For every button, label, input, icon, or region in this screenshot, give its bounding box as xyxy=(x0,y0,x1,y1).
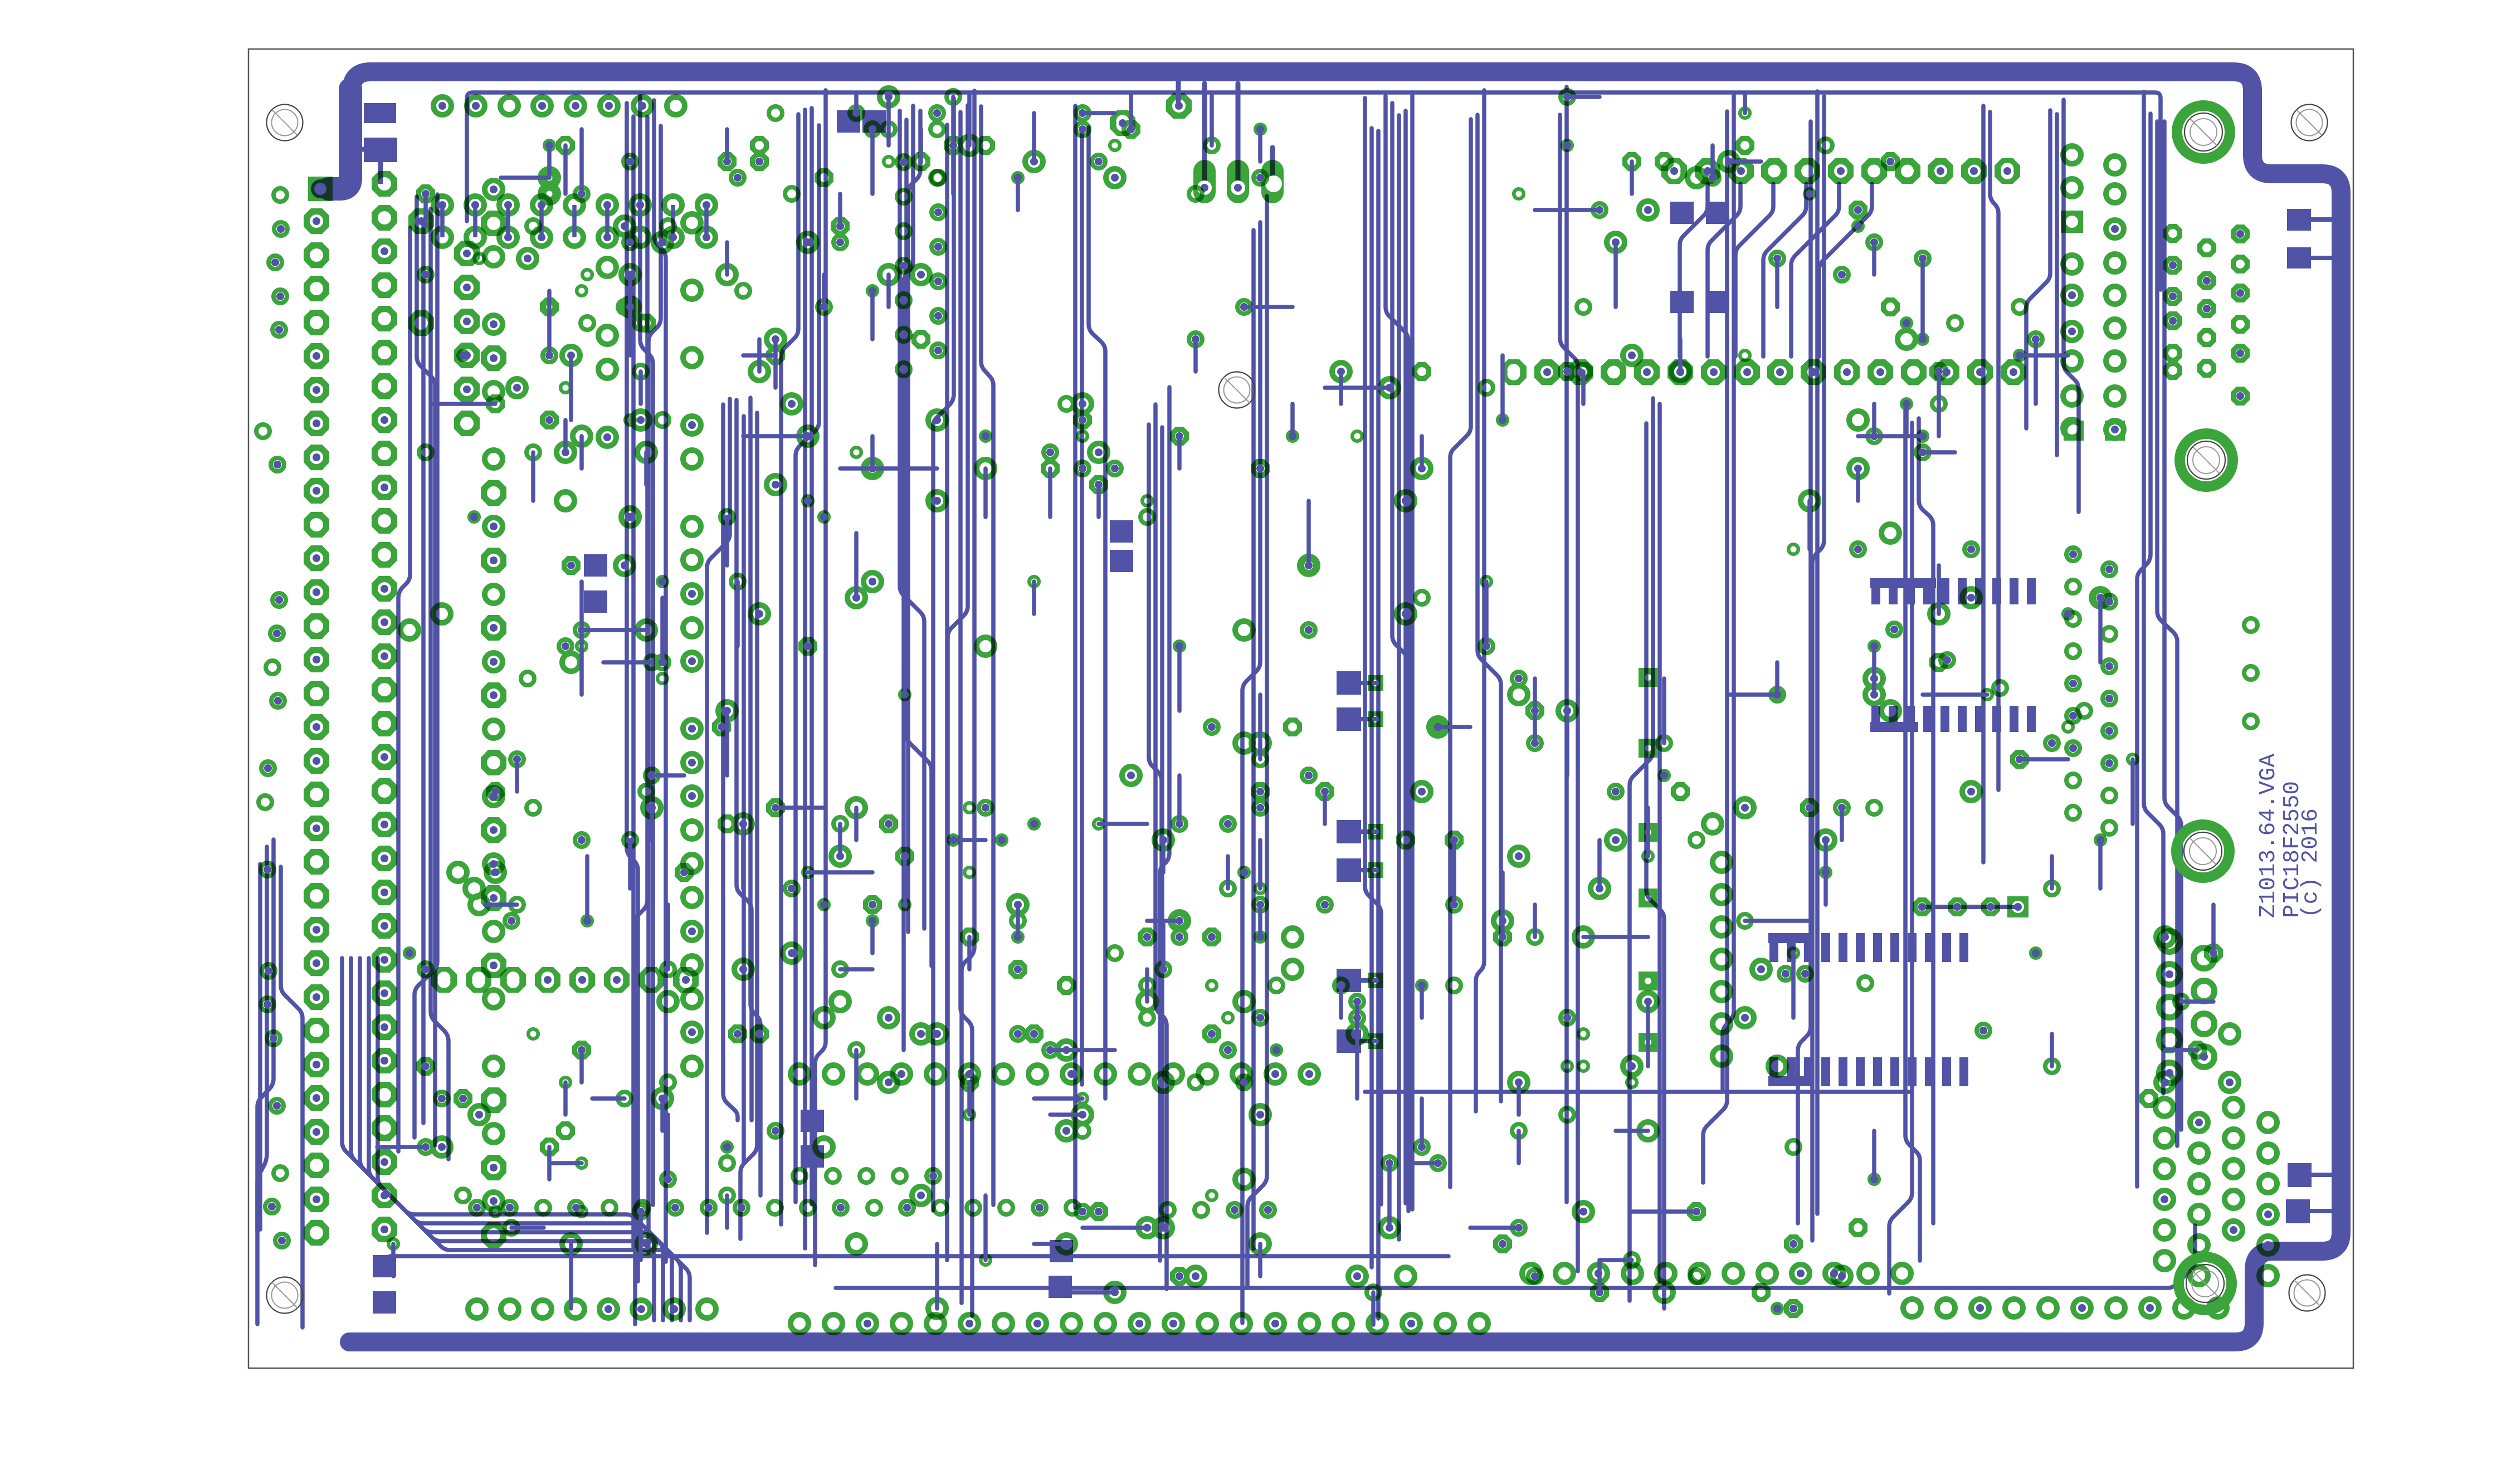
programming pads (ovals) xyxy=(1193,160,1284,203)
wire bottom bus 2 xyxy=(836,1226,2195,1288)
resistor pack pad rows top-left xyxy=(433,196,715,246)
SMD pads C bypass at right edge top xyxy=(2287,209,2311,231)
wire bundle K xyxy=(1450,119,1471,1187)
pads near IC U31 xyxy=(1779,623,2029,1037)
wire bundle R xyxy=(2026,110,2050,428)
via column x886 xyxy=(481,180,506,1248)
wire bundle Q xyxy=(1981,106,1986,862)
wire bundle F xyxy=(945,125,949,1260)
connector J1 column 1 pads xyxy=(304,177,333,1246)
wire bundle B xyxy=(627,103,638,1281)
wire bundle J xyxy=(1365,98,1381,1204)
wire bundle G xyxy=(1073,106,1077,1208)
pad row mid-left xyxy=(431,967,699,993)
pad row bottom C1 xyxy=(791,1315,1488,1332)
mounting hole top-right xyxy=(2291,105,2328,141)
connector X4 pads (staggered) xyxy=(2159,931,2215,1083)
pad row bottom R1 xyxy=(1903,1299,2227,1317)
via column x1684 xyxy=(932,171,945,357)
wire bundle L xyxy=(1560,115,1578,1271)
wires to programming pads xyxy=(1178,81,1272,188)
wire bundle C xyxy=(723,404,738,1120)
jumper pads center-right xyxy=(1368,668,1730,1065)
pad row y1928 xyxy=(791,1065,1318,1083)
wire bundle I xyxy=(1251,230,1256,1249)
wire bundle E xyxy=(900,111,924,929)
wire bundle M xyxy=(1646,423,1664,1309)
mounting hole center xyxy=(1219,372,1255,408)
wire bundle connector risers xyxy=(398,228,410,1151)
plated mounting hole right 1 xyxy=(2177,106,2230,159)
IC U10 pad row top xyxy=(1661,158,2020,184)
scattered via fields xyxy=(388,88,2239,1318)
pad row bottom R2 xyxy=(1522,1265,1911,1282)
wire diagonal staircase bottom-left xyxy=(342,958,654,1320)
wire bundle left A xyxy=(258,864,262,1229)
plated mounting hole right 3 xyxy=(2177,825,2230,878)
mounting hole bottom-left xyxy=(267,1277,303,1314)
wire bundle D xyxy=(781,114,798,1224)
page frame xyxy=(248,49,2353,1368)
via columns right of IC U30 xyxy=(2066,548,2257,834)
via column x838 xyxy=(454,241,480,436)
pad row bottom C3 xyxy=(793,1169,940,1183)
wire bottom bus 1 xyxy=(390,1254,1449,1258)
connector X5 pad grid bottom-right xyxy=(2156,1099,2277,1285)
wire bundle S xyxy=(2144,92,2163,1094)
wire bundle O xyxy=(1798,121,1811,1223)
pad row bottom C2 xyxy=(1161,1203,1275,1217)
pad row bottom L2 xyxy=(470,1201,1079,1214)
ground trace wide segment top-left xyxy=(329,89,350,189)
wire diagonal fan top-right xyxy=(1680,184,1708,357)
plated mounting hole right 4 xyxy=(2179,1257,2232,1310)
SMD jumper column center-right xyxy=(1337,671,1361,695)
connector K2 pad field top-right xyxy=(2061,146,2250,441)
IC U30 SMD pads (SO-20) xyxy=(1871,578,1880,604)
connector J1 column 2 pads xyxy=(372,171,397,1242)
pad row bottom L1 xyxy=(468,1300,716,1318)
wire jumper row near IC U31 xyxy=(1922,905,2017,909)
via column x1242 xyxy=(683,214,701,1075)
wire bundle H xyxy=(1149,424,1162,1224)
left edge via column xyxy=(256,188,289,1247)
via column x1090 xyxy=(598,258,616,446)
wire bundle P xyxy=(1905,411,1920,1261)
svg-text:(c) 2016: (c) 2016 xyxy=(2298,808,2324,918)
svg-text:Z1013.64.VGA: Z1013.64.VGA xyxy=(2256,753,2281,918)
via column x1622 xyxy=(897,155,910,376)
SMD pads C bypass at right edge bottom xyxy=(2288,1163,2312,1187)
wire bundle N xyxy=(1703,111,1727,1183)
pad row top xyxy=(433,97,685,115)
single pads top-center xyxy=(1110,93,1192,136)
via column x756 xyxy=(408,208,434,336)
silkscreen text xyxy=(2256,753,2324,918)
board outline ground trace xyxy=(320,72,2341,1342)
IC U31 SMD pads (SO-24) xyxy=(1769,933,1778,962)
trace endpoint dots xyxy=(264,93,2272,1327)
SMD pad pairs (decoupling capacitors) xyxy=(584,554,607,577)
mounting hole top-left xyxy=(267,105,303,141)
mounting hole bottom-right xyxy=(2289,1275,2325,1311)
short via-to-via wires xyxy=(377,95,2213,1325)
wire mid bus xyxy=(1365,1090,1911,1094)
plated mounting hole right 2 xyxy=(2180,434,2233,487)
IC U10 pad row bottom xyxy=(1501,359,2026,385)
SMD component pads top-left xyxy=(364,103,396,123)
wire top horizontal bus xyxy=(467,92,2161,290)
wires resistor pack xyxy=(442,205,706,237)
